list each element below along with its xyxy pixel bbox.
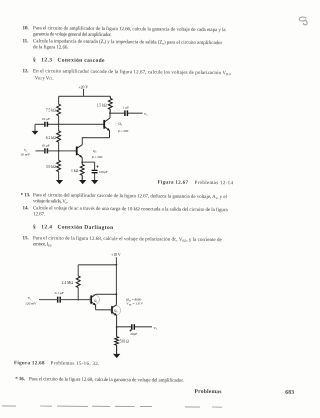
- capacitor C1 10 μF (base Q2 bypass): [42, 117, 50, 127]
- item 11 line 2: [33, 46, 69, 51]
- transistor Q2 (upper, cascode): [104, 113, 128, 138]
- svg-text:2.4 MΩ: 2.4 MΩ: [62, 281, 74, 285]
- item 15 line 2: [33, 243, 52, 248]
- wire: input stub and node B to Q1 base: [36, 150, 77, 152]
- resistor R6 2.4 MΩ (base): [62, 276, 80, 288]
- wire: emitter node to C4: [82, 162, 94, 180]
- node C (collector Q2 / output): [109, 112, 111, 114]
- handwritten pencil mark top right: [299, 17, 307, 25]
- svg-text:Q2: Q2: [114, 309, 119, 314]
- svg-text:100μF: 100μF: [99, 170, 108, 174]
- value labels betaD and VBE: [126, 298, 143, 307]
- transistor Q2 (Darlington second): [111, 294, 121, 327]
- node B (junction R2/R3, base Q1): [58, 150, 60, 152]
- svg-text:1 μF: 1 μF: [123, 105, 130, 109]
- ground below C1: [32, 131, 39, 135]
- node D (emitter junction): [81, 161, 83, 163]
- svg-text:Vi: Vi: [28, 296, 32, 301]
- wire: Q1 collector to rail: [96, 265, 117, 295]
- node: base junction: [77, 299, 79, 301]
- resistor R1 7.5 kΩ: [46, 104, 61, 116]
- svg-text:β = 200: β = 200: [118, 129, 129, 133]
- svg-text:Vo: Vo: [153, 326, 158, 331]
- supply +20 V: [79, 86, 89, 97]
- item 10 line 2: [33, 33, 111, 39]
- section header 12.3: [33, 58, 105, 64]
- ground below R5: [79, 180, 86, 184]
- svg-text:Q1: Q1: [93, 149, 98, 154]
- resistor R5 1 kΩ (emitter): [71, 162, 84, 180]
- node A (junction R1/R2, base Q2): [58, 123, 60, 125]
- wire: output node to C3: [110, 112, 143, 114]
- svg-text:20μF: 20μF: [130, 332, 137, 336]
- svg-text:3.9 kΩ: 3.9 kΩ: [46, 165, 56, 169]
- svg-text:1.5 kΩ: 1.5 kΩ: [96, 104, 106, 108]
- node Vo output label: [153, 326, 158, 331]
- svg-text:0.1 μF: 0.1 μF: [55, 291, 64, 295]
- item 12 line 2: [35, 76, 54, 81]
- capacitor C4 100 μF (emitter bypass): [92, 165, 108, 174]
- svg-text:1 kΩ: 1 kΩ: [71, 169, 79, 173]
- wire: input line to Q1 base: [39, 299, 91, 301]
- capacitor C2 10 μF (input coupling): [41, 143, 49, 153]
- svg-text:10 μF: 10 μF: [41, 143, 49, 147]
- scan artifact dashes at bottom: [2, 406, 222, 407]
- node: supply junction: [116, 264, 118, 266]
- item 11 line 1: [23, 39, 29, 44]
- svg-text:120 mV: 120 mV: [25, 301, 37, 305]
- supply +18 V: [111, 253, 121, 265]
- svg-text:6.2 kΩ: 6.2 kΩ: [46, 136, 56, 140]
- node Vo output label: [144, 112, 149, 117]
- capacitor C3 1 μF (output coupling): [123, 105, 130, 116]
- item 14 line 1: [23, 206, 29, 211]
- footer page number 683: [285, 391, 294, 397]
- figure caption 12.67: [158, 181, 189, 186]
- wire: output line: [117, 326, 152, 328]
- item 15 line 1: [23, 236, 29, 241]
- node: collector rail junction: [116, 293, 118, 295]
- capacitor C5 0.1 μF (input): [55, 291, 64, 303]
- ground below R3: [56, 180, 63, 184]
- item 12 line 1: [23, 70, 29, 75]
- item 16: [15, 377, 25, 382]
- transistor Q1 (lower, cascode): [77, 145, 103, 162]
- item 13 line 2: [33, 199, 68, 204]
- wire: node A to Q2 base: [59, 123, 105, 125]
- svg-text:Vo: Vo: [144, 112, 149, 117]
- transistor Q1 (Darlington first): [89, 294, 99, 310]
- svg-text:510 Ω: 510 Ω: [120, 339, 129, 343]
- node Vi input labels: [20, 148, 30, 156]
- wire: node A to bypass capacitor: [35, 124, 59, 131]
- figure caption 12.68: [14, 361, 45, 366]
- ground below C4: [91, 180, 98, 184]
- node: emitter output junction: [116, 326, 118, 328]
- resistor R4 1.5 kΩ (collector): [96, 96, 112, 113]
- ground below R7: [113, 354, 120, 358]
- footer running head: [195, 390, 222, 396]
- node Vi input labels (120 mV): [25, 296, 37, 305]
- item 10 line 1: [23, 26, 29, 31]
- svg-text:β = 200: β = 200: [92, 155, 103, 159]
- svg-text:10 μF: 10 μF: [42, 117, 50, 121]
- capacitor C6 20 μF (output): [130, 324, 138, 336]
- svg-text:+18 V: +18 V: [111, 253, 121, 257]
- wire: top rail: [78, 264, 116, 266]
- resistor R3 3.9 kΩ: [46, 160, 61, 171]
- item 14 line 2: [33, 212, 45, 217]
- section header 12.4: [33, 225, 113, 231]
- wire: left divider branch: [58, 96, 60, 180]
- wire: top supply rail: [59, 95, 111, 97]
- wire: left branch: [77, 265, 79, 300]
- svg-text:+20 V: +20 V: [79, 86, 89, 90]
- wire: Q2 emitter to Q1 collector jog: [82, 138, 109, 145]
- svg-text:7.5 kΩ: 7.5 kΩ: [46, 108, 56, 112]
- svg-text:Q2: Q2: [118, 122, 123, 127]
- resistor R2 6.2 kΩ: [46, 131, 61, 142]
- svg-text:10 mV: 10 mV: [20, 152, 30, 156]
- item 13 line 1: [21, 193, 31, 198]
- resistor R7 510 Ω (emitter): [115, 327, 129, 354]
- wire: Q1 emitter to Q2 base: [96, 309, 112, 311]
